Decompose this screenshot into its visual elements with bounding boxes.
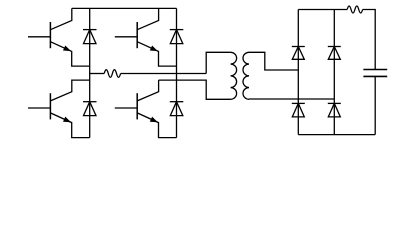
wire rectifier left leg [297,10,299,135]
transformer T1 primary winding [231,52,237,99]
diode D4 [170,102,184,116]
transformer T1 secondary winding [243,52,249,99]
inductor L1 [104,70,120,78]
wire right bridge leg [176,8,178,137]
wire inductor to transformer primary top [121,52,231,73]
diode D3 [83,102,97,116]
wire rectifier top rail [298,9,347,11]
diode D1 [83,30,97,44]
transistor Q1 [28,8,90,66]
diode D8 [328,103,341,117]
inductor L2 [347,6,362,13]
wire rectifier right leg [333,10,335,135]
transistor Q2 [115,8,177,66]
diode D2 [170,30,184,44]
wire bridge midpoint B to transformer primary bottom [159,80,231,99]
wire inductor L2 to capacitor [363,10,376,70]
transistor Q3 [28,80,90,138]
diode D6 [328,47,341,60]
capacitor C1 [363,70,387,135]
wire rectifier bottom rail [298,134,375,136]
wire left bridge leg [89,8,91,137]
diode D7 [292,103,305,117]
wire secondary top lead to rectifier node [249,52,298,70]
wire secondary bottom lead to rectifier node [249,98,334,100]
transistor Q4 [115,80,177,138]
wire top DC rail [72,7,177,9]
diode D5 [292,47,305,60]
wire bridge midpoint A to inductor [90,73,105,75]
